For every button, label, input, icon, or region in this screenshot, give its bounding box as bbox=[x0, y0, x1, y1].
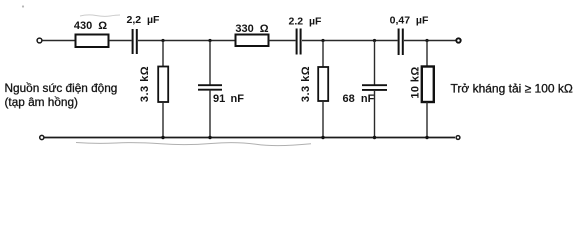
node A junction top bbox=[161, 39, 164, 42]
bottom junction node A bbox=[161, 136, 164, 139]
svg-text:2,2 µF: 2,2 µF bbox=[127, 14, 160, 26]
capacitor C4 68nF bbox=[362, 84, 387, 86]
output terminal bottom bbox=[456, 136, 460, 140]
wire branch R2 lower bbox=[162, 102, 164, 138]
wire branch C2 upper bbox=[209, 41, 211, 86]
resistor R3 330 ohm bbox=[236, 35, 269, 47]
svg-text:430 Ω: 430 Ω bbox=[74, 20, 107, 32]
svg-text:68 nF: 68 nF bbox=[343, 93, 375, 105]
svg-text:(tạp âm hồng): (tạp âm hồng) bbox=[5, 95, 79, 109]
svg-text:0,47 µF: 0,47 µF bbox=[390, 15, 429, 27]
node D junction top bbox=[373, 39, 376, 42]
output terminal top bbox=[456, 38, 460, 42]
resistor R1 430 ohm bbox=[76, 35, 109, 48]
resistor R5 10k bbox=[422, 67, 434, 103]
svg-text:91 nF: 91 nF bbox=[213, 93, 244, 105]
resistor R2 3.3k bbox=[158, 67, 168, 103]
scan noise smudge top bbox=[80, 15, 120, 17]
wire branch R4 upper bbox=[322, 41, 324, 68]
wire C1 to R3 bbox=[138, 40, 236, 42]
bottom junction node D bbox=[373, 136, 376, 139]
wire branch R5 upper bbox=[426, 41, 428, 67]
node E junction top bbox=[425, 39, 428, 42]
input terminal top bbox=[37, 38, 42, 43]
capacitor C2 91nF bbox=[198, 84, 222, 86]
wire branch C2 lower bbox=[209, 90, 211, 138]
bottom rail wire bbox=[45, 137, 456, 139]
capacitor C1 2.2uF bbox=[132, 29, 134, 54]
svg-text:3.3 kΩ: 3.3 kΩ bbox=[300, 66, 312, 102]
svg-text:2.2 µF: 2.2 µF bbox=[289, 16, 322, 28]
wire branch C4 upper bbox=[374, 41, 376, 86]
wire C5 to output bbox=[404, 40, 456, 42]
wire R1 to C1 bbox=[109, 40, 132, 42]
bottom junction node E bbox=[425, 136, 428, 139]
svg-text:3.3 kΩ: 3.3 kΩ bbox=[139, 66, 151, 102]
node C junction top bbox=[321, 39, 324, 42]
svg-text:Trở kháng tải ≥ 100 kΩ: Trở kháng tải ≥ 100 kΩ bbox=[451, 81, 573, 95]
node B junction top bbox=[208, 39, 211, 42]
svg-text:10 kΩ: 10 kΩ bbox=[410, 66, 422, 98]
capacitor C5 0.47uF bbox=[398, 29, 400, 56]
wire branch R2 upper bbox=[162, 41, 164, 67]
wire branch R4 lower bbox=[322, 101, 324, 138]
scan noise line under bottom rail bbox=[76, 143, 311, 146]
wire C3 to C5 bbox=[302, 40, 398, 42]
input terminal bottom bbox=[40, 135, 44, 139]
bottom junction node B bbox=[208, 136, 211, 139]
wire branch R5 lower bbox=[426, 102, 428, 138]
capacitor C3 2.2uF bbox=[296, 29, 298, 55]
svg-text:330 Ω: 330 Ω bbox=[235, 23, 268, 35]
wire input to R1 bbox=[43, 40, 76, 42]
scan noise speck bbox=[22, 5, 24, 7]
svg-text:Nguồn sức điện động: Nguồn sức điện động bbox=[5, 81, 118, 95]
resistor R4 3.3k bbox=[318, 67, 328, 101]
wire R3 to C3 bbox=[269, 40, 296, 42]
bottom junction node C bbox=[321, 136, 324, 139]
wire branch C4 lower bbox=[374, 90, 376, 138]
